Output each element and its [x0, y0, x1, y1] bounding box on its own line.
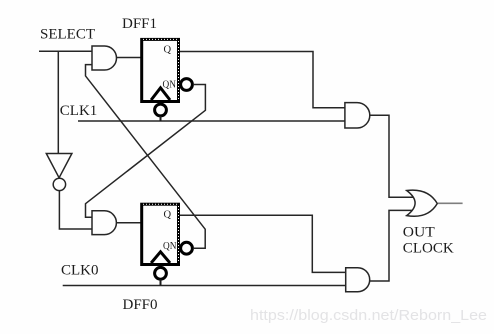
- svg-text:CLK0: CLK0: [61, 263, 99, 279]
- svg-text:Q: Q: [164, 45, 172, 56]
- svg-text:Q: Q: [164, 210, 172, 221]
- svg-text:SELECT: SELECT: [40, 27, 95, 43]
- svg-text:https://blog.csdn.net/Reborn_L: https://blog.csdn.net/Reborn_Lee: [250, 307, 487, 324]
- svg-text:QN: QN: [163, 79, 177, 90]
- svg-text:CLK1: CLK1: [60, 103, 98, 119]
- svg-text:DFF1: DFF1: [122, 16, 157, 32]
- svg-text:QN: QN: [163, 241, 177, 252]
- svg-text:OUT: OUT: [403, 224, 435, 240]
- svg-text:DFF0: DFF0: [123, 297, 158, 313]
- svg-text:CLOCK: CLOCK: [403, 241, 454, 257]
